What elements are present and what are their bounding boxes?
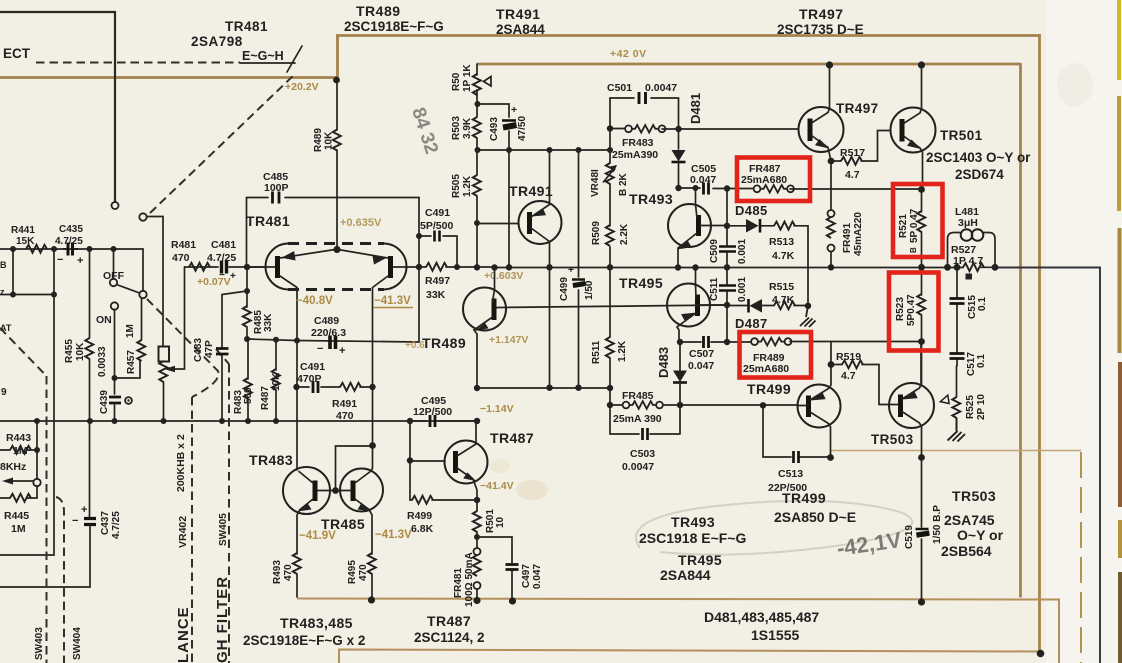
junction dot TR493 collector [693, 185, 699, 191]
junction dot [34, 418, 40, 424]
wire C507 row y342 [680, 341, 921, 344]
junction dot TR483 collector top [294, 338, 300, 344]
junction dot R505 bottom [474, 220, 480, 226]
svg-text:0.0033: 0.0033 [97, 346, 108, 377]
diode D481 [672, 129, 686, 188]
switch OFF circle [110, 279, 117, 286]
column x727 to TR493 base [726, 189, 728, 227]
capacitor C439 [109, 397, 121, 403]
ground D487 [800, 306, 816, 327]
svg-text:AT: AT [0, 323, 12, 333]
junction dot C491 top [416, 233, 422, 239]
junction dot FR491 main [828, 264, 834, 270]
column x509 C493 down [508, 150, 510, 267]
capacitor C497 branch [477, 537, 512, 600]
junction dot [407, 418, 413, 424]
brown bus inner top [477, 63, 1020, 66]
svg-text:1M: 1M [125, 324, 136, 338]
svg-text:2SC1918E~F~G: 2SC1918E~F~G [344, 19, 444, 34]
svg-text:C499: C499 [559, 277, 570, 301]
inductor L481 right leg [984, 233, 996, 268]
resistor R489 column [336, 81, 338, 246]
svg-text:R497: R497 [425, 275, 450, 287]
svg-text:470: 470 [336, 410, 354, 422]
svg-text:C439: C439 [99, 390, 110, 414]
transistor TR491 [519, 150, 562, 267]
wire R483 down [247, 399, 249, 421]
svg-text:TR499: TR499 [782, 490, 826, 506]
junction dot brown C497 [509, 597, 516, 604]
svg-text:VR48I: VR48I [590, 169, 601, 197]
svg-text:TR495: TR495 [619, 275, 663, 291]
tan dashed vertical right [1080, 452, 1082, 663]
wire row y129 FR483 [610, 128, 798, 131]
svg-text:R509: R509 [591, 221, 602, 245]
capacitor C501 loop [610, 98, 679, 129]
svg-text:C513: C513 [778, 468, 803, 480]
switch S1 throw circle [139, 213, 146, 220]
svg-text:10K: 10K [324, 131, 335, 150]
svg-text:TR483: TR483 [249, 452, 293, 468]
junction dot [51, 246, 57, 252]
switch ON circle [111, 302, 118, 309]
capacitor C493 bracket [478, 104, 510, 150]
resistor R495 [368, 553, 376, 574]
svg-text:R517: R517 [840, 147, 865, 159]
resistor R511 [606, 337, 614, 358]
TR481 right emitter arrowhead [372, 253, 387, 265]
svg-text:1.2K: 1.2K [617, 340, 628, 362]
resistor R497 [426, 263, 447, 271]
svg-text:+: + [81, 504, 87, 516]
column R485 [246, 267, 248, 307]
svg-text:TR497: TR497 [799, 6, 844, 22]
svg-text:R443: R443 [6, 432, 31, 444]
junction dot [10, 246, 16, 252]
svg-text:33K: 33K [426, 289, 446, 301]
column R487 [275, 340, 277, 370]
resistor R445 [10, 494, 31, 502]
base tie wire TR483 TR485 [318, 446, 373, 491]
faint stain near TR487 [490, 459, 510, 473]
svg-text:−41.9V: −41.9V [299, 530, 336, 542]
faint stain center [516, 480, 548, 500]
right edge strip seg2 [1117, 96, 1121, 211]
svg-text:R503: R503 [451, 116, 462, 140]
svg-text:+0.6: +0.6 [405, 340, 425, 351]
junction dot y267 column [724, 264, 730, 270]
junction dot R515 right [805, 303, 811, 309]
junction dot R487 top [273, 337, 279, 343]
svg-text:R445: R445 [4, 510, 29, 522]
TR495 base wire [700, 304, 728, 306]
wire row y188 [679, 188, 922, 189]
junction dot [161, 418, 167, 424]
diode D485 [746, 219, 759, 233]
junction dot C515 top [954, 264, 961, 271]
svg-text:SW405: SW405 [218, 513, 229, 546]
junction dot [546, 385, 552, 391]
svg-text:5P/500: 5P/500 [420, 220, 453, 232]
svg-text:TR495: TR495 [678, 552, 722, 568]
svg-text:0.001: 0.001 [737, 239, 748, 264]
brown bottom bus 2 [339, 650, 1040, 663]
junction dot emitters [333, 246, 340, 253]
pencil oval around TR493 bottom label [636, 501, 912, 555]
junction dot [607, 147, 613, 153]
svg-text:R499: R499 [407, 510, 432, 522]
junction dot [607, 402, 613, 408]
junction dot TR489e TR487c [474, 418, 480, 424]
capacitor C485 loop [247, 198, 420, 268]
svg-text:2P 10: 2P 10 [976, 394, 987, 420]
junction dot brown top [333, 77, 340, 84]
junction dot [10, 292, 16, 298]
svg-text:2SA850 D~E: 2SA850 D~E [774, 509, 856, 525]
switch arm OFF-throw [117, 285, 140, 294]
wire y421 C495 segment [410, 420, 477, 422]
junction dot D487 row [724, 302, 730, 308]
svg-text:C507: C507 [689, 348, 714, 360]
svg-text:TR491: TR491 [496, 6, 541, 22]
svg-text:D485: D485 [735, 203, 768, 218]
svg-text:220/6.3: 220/6.3 [311, 327, 346, 339]
svg-text:2.2K: 2.2K [619, 223, 630, 245]
resistor R493 [293, 553, 301, 574]
junction dot x509 [506, 264, 512, 270]
junction dot base [724, 223, 730, 229]
wire R493 to brown [296, 574, 298, 597]
wire C483 down [221, 356, 223, 422]
diode D483 [673, 342, 687, 405]
TR481 left collector line [280, 276, 297, 341]
wire R499 bracket [410, 461, 477, 500]
brown bus right outer vertical [1038, 34, 1041, 652]
C483 branch wire [222, 291, 247, 347]
wire R505 to main [476, 223, 478, 267]
svg-text:4.7K: 4.7K [772, 294, 795, 306]
fusible resistor FR491 vertical [827, 210, 835, 267]
junction dot [475, 101, 481, 107]
svg-text:C501: C501 [607, 82, 632, 94]
svg-text:B 2K: B 2K [618, 172, 629, 196]
capacitor C437 [84, 519, 96, 525]
svg-text:+: + [77, 255, 83, 267]
svg-text:−: − [317, 343, 323, 355]
wire row y150 [477, 149, 610, 151]
svg-text:R513: R513 [769, 236, 794, 248]
fusible resistor FR487 [754, 185, 794, 193]
junction dot [474, 534, 480, 540]
switch throw circle2 [139, 291, 146, 298]
capacitor C517 plates [950, 354, 965, 359]
red box FR487 [737, 158, 810, 202]
svg-text:0.0047: 0.0047 [645, 82, 677, 94]
svg-text:E~G~H: E~G~H [242, 49, 284, 63]
svg-text:B: B [0, 260, 7, 270]
svg-text:4.7/25: 4.7/25 [55, 236, 83, 247]
svg-text:+0.635V: +0.635V [340, 217, 382, 229]
resistor R523 column [921, 267, 923, 295]
svg-text:2SB564: 2SB564 [941, 543, 992, 559]
column C499 [578, 150, 580, 388]
dashed SW403 diagonal [0, 328, 47, 376]
svg-text:ON: ON [96, 314, 112, 326]
junction dot [34, 447, 40, 453]
brown bus top-left horizontal [0, 76, 336, 79]
svg-text:TR501: TR501 [940, 128, 983, 143]
svg-text:4.7: 4.7 [845, 169, 860, 181]
junction dot TR497 emitter R517 [828, 158, 835, 165]
dashed SW404 hook [56, 497, 64, 663]
column x90 with R455 [89, 249, 91, 338]
svg-text:D481: D481 [688, 93, 703, 124]
TR493 base wire [701, 225, 728, 227]
wire y294 left [0, 294, 54, 296]
svg-text:R455: R455 [64, 339, 75, 363]
junction dot C513 TR499 [827, 454, 834, 461]
bracket to R457 [115, 360, 141, 378]
capacitor C513 branch [763, 405, 830, 457]
svg-text:C435: C435 [59, 224, 83, 235]
capacitor C493 plates [502, 119, 516, 122]
column x727 down to FR489 [726, 305, 728, 342]
resistor R525 [952, 397, 960, 418]
junction dot TR501 emitter [918, 186, 925, 193]
wire R523 bottom [921, 315, 923, 384]
red box R523 [889, 273, 939, 351]
junction dot [407, 457, 413, 463]
brown bus top horizontal [336, 34, 1039, 37]
junction dot brown collector TR497 [826, 61, 833, 68]
svg-text:25mA680: 25mA680 [741, 174, 787, 186]
capacitor C491 5P branch [419, 198, 457, 342]
column TR491 emitter down [549, 267, 551, 388]
capacitor C511 plates [719, 286, 736, 291]
TR489 base wire [496, 307, 498, 310]
VR481 arrowhead [609, 165, 617, 172]
resistor R499 [412, 496, 433, 504]
svg-text:3.9K: 3.9K [462, 117, 473, 139]
right edge olive strip [1117, 0, 1121, 80]
svg-text:200KHB x 2: 200KHB x 2 [175, 434, 187, 492]
svg-text:+: + [511, 104, 517, 116]
wire D487 row y305 [498, 305, 809, 308]
svg-text:0.047: 0.047 [532, 564, 543, 589]
svg-text:D481,483,485,487: D481,483,485,487 [704, 609, 819, 625]
pot wiper arrow [172, 267, 185, 369]
capacitor C491-470P plates [313, 381, 318, 393]
svg-text:+20.2V: +20.2V [285, 81, 319, 93]
svg-text:D483: D483 [656, 347, 671, 378]
svg-text:9: 9 [1, 387, 7, 398]
svg-text:45mA220: 45mA220 [853, 212, 864, 256]
junction dot [475, 147, 481, 153]
resistor R523 zigzag [917, 294, 925, 315]
capacitor C509 [726, 226, 728, 267]
transistor TR489 mid [463, 268, 506, 389]
junction dot [575, 385, 581, 391]
junction dot [675, 185, 681, 191]
svg-text:+1.147V: +1.147V [489, 334, 528, 346]
junction dot [245, 418, 251, 424]
capacitor C483 plates [216, 349, 229, 355]
right edge strip seg6 [1118, 572, 1122, 663]
column x372 R491 to TR485 [372, 387, 374, 446]
capacitor C491 plates [435, 231, 440, 242]
diode D487 bar [747, 299, 750, 313]
red box FR489 [740, 332, 812, 378]
pot wiper arrowhead [164, 366, 175, 372]
resistor R503 [473, 117, 481, 138]
transistor TR497 [799, 66, 844, 210]
junction dot y421 C483 [219, 418, 225, 424]
svg-text:470P: 470P [297, 373, 322, 385]
svg-text:C497: C497 [521, 564, 532, 588]
svg-text:R481: R481 [171, 239, 196, 251]
wire TR487 base tap [410, 421, 445, 461]
junction dot brown C519 [918, 598, 925, 605]
fusible resistor FR481 vertical [473, 537, 481, 600]
junction dot D483 bottom [677, 402, 683, 408]
svg-text:R515: R515 [769, 281, 794, 293]
svg-text:C503: C503 [630, 448, 655, 460]
capacitor C435 [63, 248, 78, 250]
junction dot [369, 384, 375, 390]
resistor R521 column [921, 190, 923, 213]
svg-text:6.8K: 6.8K [411, 523, 434, 535]
svg-text:1M: 1M [11, 523, 26, 535]
svg-text:0.1: 0.1 [976, 354, 987, 368]
junction dot corner [607, 385, 613, 391]
wire main y421 [0, 420, 477, 422]
svg-text:10K: 10K [271, 372, 282, 391]
column R483-560 [247, 339, 249, 379]
svg-text:33K: 33K [263, 313, 274, 332]
junction dot [576, 147, 582, 153]
dashed SW405 tick [216, 349, 229, 364]
svg-text:TR503: TR503 [871, 432, 914, 447]
svg-text:470: 470 [358, 564, 369, 581]
svg-text:470: 470 [283, 564, 294, 581]
arrowhead [2, 478, 13, 485]
dashed SW405 vertical [228, 364, 230, 663]
svg-text:2SA745: 2SA745 [944, 512, 995, 528]
svg-text:C511: C511 [709, 277, 720, 301]
lighter right page strip [1046, 0, 1122, 663]
svg-text:+: + [339, 345, 345, 357]
svg-text:12P/500: 12P/500 [413, 406, 452, 418]
junction dot column top [724, 185, 730, 191]
TR481 left emitter line [280, 250, 335, 259]
junction dot x419 [416, 264, 422, 270]
inductor L481 loop2 [972, 229, 984, 241]
diode D485 bar [759, 219, 762, 233]
capacitor C515 plates [950, 299, 965, 304]
junction dot x115 y378 [112, 375, 118, 381]
wire main y249 [0, 249, 143, 291]
svg-text:2SC1124, 2: 2SC1124, 2 [414, 630, 485, 645]
svg-text:−40.8V: −40.8V [296, 295, 333, 307]
junction dot bases [332, 487, 339, 494]
dashed VR402 vertical [191, 397, 193, 663]
junction dot R499 right [474, 497, 480, 503]
pot lower wire [163, 382, 165, 421]
svg-text:R495: R495 [347, 560, 358, 584]
junction dot x477 [474, 264, 480, 270]
svg-text:1S1555: 1S1555 [751, 627, 799, 643]
main wire y267 center [496, 266, 995, 268]
capacitor C507 plates [704, 336, 709, 348]
TR481 right emitter line [338, 250, 388, 259]
black wire to right edge [995, 268, 1100, 663]
resistor R505 [473, 175, 481, 196]
brown bus inner right vertical [1019, 63, 1022, 598]
svg-text:2SC1403 O~Y or: 2SC1403 O~Y or [926, 150, 1031, 165]
right edge strip seg3 [1118, 228, 1122, 353]
svg-text:47/50: 47/50 [517, 116, 528, 141]
svg-text:R487: R487 [260, 386, 271, 410]
connector square mark [966, 274, 973, 280]
junction dot [677, 339, 683, 345]
svg-text:FR491: FR491 [842, 223, 853, 253]
svg-text:2SD674: 2SD674 [955, 167, 1004, 182]
resistor R509 [606, 225, 614, 246]
junction dot TR495 collector [692, 264, 698, 270]
resistor R491 [340, 383, 361, 391]
switch OFF wire [113, 249, 115, 279]
capacitor C485 plates [273, 192, 280, 204]
svg-text:5P 0.47: 5P 0.47 [909, 208, 920, 243]
target mark [125, 397, 132, 404]
svg-text:1/50: 1/50 [584, 280, 595, 300]
red box R521 [893, 184, 943, 257]
svg-text:−41.3V: −41.3V [374, 295, 411, 307]
right edge strip seg4 [1118, 362, 1122, 507]
svg-text:O~Y or: O~Y or [957, 527, 1004, 543]
svg-text:TR493: TR493 [671, 514, 715, 530]
TR481 right base wire [393, 266, 419, 268]
svg-text:4.7K: 4.7K [772, 250, 795, 262]
svg-text:3μH: 3μH [958, 217, 978, 229]
svg-text:C489: C489 [314, 315, 339, 327]
svg-text:−1.14V: −1.14V [480, 403, 514, 415]
TR481 left base bar [275, 256, 280, 278]
resistor R501 [473, 511, 481, 532]
junction dot [111, 246, 117, 252]
long vertical x54 [0, 249, 54, 555]
junction dot [474, 385, 480, 391]
brown bottom bus 1 [297, 599, 1059, 663]
dual TR481 right cap arc [384, 244, 407, 290]
svg-text:C491: C491 [425, 207, 450, 219]
svg-text:TR489: TR489 [356, 3, 401, 19]
capacitor C515 column [956, 267, 958, 366]
svg-text:0.001: 0.001 [737, 277, 748, 302]
svg-text:C481: C481 [211, 239, 236, 251]
svg-text:1/50 B.P: 1/50 B.P [932, 505, 943, 544]
svg-text:FR483: FR483 [622, 137, 654, 149]
resistor R527 on wire [963, 263, 984, 271]
svg-text:R491: R491 [332, 398, 357, 410]
junction dot brown R495 [368, 596, 375, 603]
trimmer triangle R50 [484, 77, 492, 87]
fusible resistor FR485 [623, 401, 663, 409]
svg-text:25mA390: 25mA390 [612, 149, 658, 161]
svg-text:0.047: 0.047 [688, 360, 714, 372]
svg-text:TR481: TR481 [246, 213, 290, 229]
svg-text:B: B [909, 247, 918, 253]
